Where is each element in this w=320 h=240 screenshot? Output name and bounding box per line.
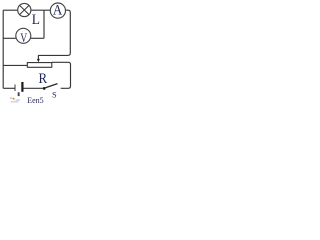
svg-text:Een5: Een5 [27, 96, 43, 104]
svg-text:S: S [52, 91, 57, 100]
svg-text:R: R [39, 71, 48, 87]
svg-text:V: V [20, 31, 27, 45]
svg-text:L: L [32, 12, 40, 28]
svg-text:A: A [53, 3, 63, 19]
